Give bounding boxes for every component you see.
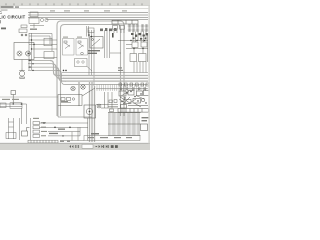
- wire to control valve: [0, 96, 58, 98]
- wires from junction cluster down: [29, 33, 52, 70]
- junction dots on staircase: [29, 60, 66, 71]
- wire dots bottom rows: [43, 122, 71, 136]
- wire labels bottom rows: [49, 129, 65, 135]
- valve cluster dots: [130, 40, 145, 49]
- switch box right-center: [90, 37, 103, 49]
- connector strip CN top-right: [112, 20, 138, 24]
- engine frame corner: [58, 106, 92, 118]
- relay box pair center: [63, 39, 88, 56]
- terminal strip right: [118, 109, 149, 113]
- label block right of hatch: [142, 117, 149, 121]
- pump box with circle: [84, 105, 96, 118]
- status bar: [0, 143, 150, 150]
- valve cluster far right: [118, 32, 148, 63]
- valve cluster tiny parts: [131, 33, 148, 40]
- wire ladder left-to-frame: [29, 38, 57, 58]
- gauge cluster above pump: [71, 85, 95, 96]
- battery box: [75, 59, 93, 72]
- hose branch to lower row: [58, 70, 96, 84]
- hydraulic hose vertical drop center: [79, 82, 95, 142]
- reservoir long box bottom: [84, 136, 140, 141]
- hose band dark edge wires: [62, 72, 148, 74]
- valve lower wires: [110, 53, 146, 73]
- ladder junction dots: [28, 39, 34, 54]
- pilot valve parts left of strip: [108, 100, 118, 112]
- reservoir label: [91, 133, 99, 135]
- relay ladder far bottom-left: [6, 118, 20, 140]
- ruler toolbar: [0, 0, 150, 6]
- label L5A: [30, 29, 37, 30]
- sheet top border line: [0, 8, 150, 10]
- starter bracket bottom-left: [22, 128, 30, 137]
- solenoid cluster right (dense): [119, 91, 149, 109]
- junction dots left rows: [13, 103, 23, 105]
- junction cluster left: [19, 25, 27, 36]
- lamp 2: [26, 51, 31, 56]
- mid-right wire rows with terminals: [96, 83, 149, 86]
- label FIG left margin: [1, 28, 6, 30]
- wire rows into staircase: [28, 61, 58, 71]
- svg-text:HYDRAULIC CIRCUIT: HYDRAULIC CIRCUIT: [0, 14, 26, 19]
- junction dots center: [88, 34, 92, 37]
- tiny parts row top-center-right: [100, 28, 117, 31]
- right page edge: [148, 6, 150, 144]
- hydraulic hose loop inner: [61, 25, 121, 117]
- page number box: [82, 144, 93, 148]
- harness hatch block: [108, 113, 141, 136]
- lamp 1: [17, 51, 22, 56]
- sub-harness wires above switch box: [87, 26, 95, 37]
- fuse box cluster top-left: [29, 12, 48, 28]
- relay block under strip: [113, 26, 125, 34]
- hydraulic hose main band: [60, 76, 148, 82]
- battery terminal strip bottom-left: [28, 140, 58, 143]
- second terminal row right: [96, 88, 148, 90]
- connector pin grid B: [141, 25, 148, 32]
- wire bus top group: [28, 13, 148, 20]
- fuse ladder bottom-left: [31, 118, 40, 140]
- wires from fuses to right: [40, 123, 89, 136]
- work lamp box: [14, 43, 34, 60]
- frame tick labels left of band: [118, 67, 123, 71]
- connector pin grid A: [128, 25, 139, 32]
- relay labels above boxes: [63, 37, 82, 38]
- horn component: [19, 60, 25, 79]
- left wire row labels: [2, 99, 19, 100]
- left wire rows: [0, 103, 27, 124]
- nav buttons right side: [96, 145, 118, 148]
- ground strap marks right of strip: [60, 141, 70, 142]
- solenoid cluster dots: [121, 91, 146, 104]
- valve box labels: [61, 101, 68, 102]
- nav buttons in status bar: [69, 145, 78, 148]
- reservoir inner marks: [88, 137, 132, 138]
- wire comb below terminal rows: [97, 85, 145, 92]
- sheet header tiny text: [1, 6, 20, 10]
- aircon box right: [141, 124, 148, 131]
- solenoid cluster diagonal wires: [119, 91, 144, 104]
- wire bundle center vertical: [89, 30, 110, 86]
- switch labels: [88, 50, 100, 54]
- wire bus labels: [50, 10, 127, 11]
- hydraulic hose loop outer (gray rounded rect): [57, 21, 124, 116]
- oil cooler symbol mid: [96, 92, 118, 108]
- diode symbol left: [11, 91, 16, 104]
- title text block: HYDRAULIC CIRCUIT: [0, 10, 26, 24]
- fuse ladder labels: [33, 118, 47, 137]
- wire drops to sump line: [60, 118, 88, 141]
- control valve box: [58, 95, 82, 106]
- pressure switch label right-center: [112, 33, 114, 38]
- hose staircase bends: [50, 61, 66, 82]
